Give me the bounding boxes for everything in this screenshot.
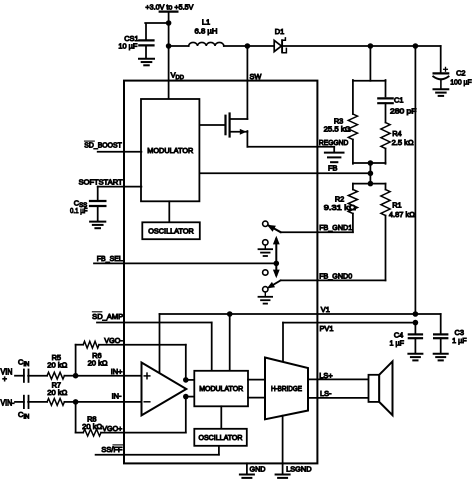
block boost MODULATOR	[141, 99, 199, 201]
speaker	[369, 361, 393, 415]
capacitor C1	[378, 98, 392, 103]
svg-text:CIN: CIN	[18, 358, 29, 369]
svg-text:C1: C1	[394, 96, 403, 105]
transistor boost NMOS channel bar	[229, 114, 231, 137]
ground C2	[434, 89, 449, 96]
svg-text:VGO+: VGO+	[102, 424, 122, 433]
wire CIN to R7	[28, 401, 47, 403]
svg-text:+: +	[2, 374, 7, 383]
label R4	[392, 129, 401, 138]
resistor R4	[381, 123, 390, 149]
node PV1 rail junction	[413, 320, 419, 326]
label R7	[52, 381, 61, 390]
svg-text:OSCILLATOR: OSCILLATOR	[199, 433, 243, 442]
wire LS+	[308, 378, 369, 380]
svg-text:VGO-: VGO-	[104, 336, 123, 345]
wire lower divider top bar	[353, 183, 386, 185]
wire VGO-	[99, 344, 186, 346]
svg-text:9.31 kΩ: 9.31 kΩ	[324, 203, 357, 212]
wire R1 top lead	[385, 184, 387, 190]
svg-text:20 kΩ: 20 kΩ	[82, 422, 102, 431]
wire R4 bottom lead	[385, 149, 387, 164]
label CIN top	[18, 358, 29, 369]
label C1	[394, 96, 403, 105]
wire modulator to H-bridge	[248, 380, 265, 398]
svg-text:MODULATOR: MODULATOR	[147, 146, 193, 155]
wire FB_GND1	[281, 231, 353, 233]
svg-text:R1: R1	[392, 200, 401, 209]
node IN+ junction	[73, 373, 79, 379]
svg-text:L1: L1	[202, 18, 210, 27]
svg-text:2.5 kΩ: 2.5 kΩ	[392, 138, 414, 147]
wire SS/FF	[96, 446, 219, 455]
svg-text:GND: GND	[250, 465, 266, 474]
svg-text:FB: FB	[328, 164, 338, 173]
node op-amp out+ junction	[183, 377, 189, 383]
capacitor CS1	[139, 40, 153, 45]
wire IN+	[76, 375, 142, 377]
wire right rail vertical	[414, 46, 416, 314]
wire R2 bottom lead	[352, 214, 354, 233]
node V1 modulator branch	[227, 311, 233, 371]
wire LSGND	[282, 416, 284, 474]
switch blade FB_GND1	[267, 225, 281, 233]
block boost OSCILLATOR	[142, 222, 200, 239]
svg-text:V1: V1	[321, 305, 330, 314]
svg-text:SS/FF: SS/FF	[101, 445, 122, 454]
label VIN- input	[1, 398, 15, 407]
wire R3 bottom lead	[352, 140, 354, 164]
wire L1 to SW node	[224, 45, 248, 47]
label LS+ pin	[319, 371, 332, 380]
capacitor CSS	[90, 201, 105, 206]
svg-text:280 pF: 280 pF	[390, 107, 417, 116]
capacitor C3	[434, 334, 447, 338]
ground C3	[434, 354, 448, 361]
wire CSS branch	[97, 187, 99, 201]
ground CS1	[139, 59, 154, 66]
node op-amp out- junction	[183, 394, 189, 400]
wire switch gnd1 stub	[264, 245, 266, 249]
wire C3 to ground	[440, 338, 442, 353]
wire SW vertical	[246, 46, 248, 119]
capacitor C2	[433, 73, 448, 89]
label REGGND pin	[319, 138, 349, 147]
wire R5 to IN+ node	[64, 375, 75, 377]
label IN- pin	[112, 391, 122, 400]
diode D1 (schottky)	[274, 38, 286, 53]
label R8	[87, 415, 96, 424]
node V1 rail junction	[413, 311, 419, 317]
inductor L1	[189, 42, 224, 46]
block amp MODULATOR	[194, 371, 248, 407]
svg-text:LS-: LS-	[320, 389, 332, 398]
label CS1	[124, 34, 138, 43]
svg-text:VDD: VDD	[171, 71, 184, 82]
wire divider feed	[369, 46, 371, 81]
capacitor CIN top	[24, 370, 29, 382]
label R8 value	[82, 422, 102, 431]
switch contact circle FB_GND0 gnd	[263, 287, 268, 292]
label R6	[92, 351, 101, 360]
node divider bottom junction	[368, 160, 374, 166]
node supply-L1 junction	[166, 43, 172, 49]
wire switch gnd0 stub	[264, 292, 266, 296]
label VDD pin	[171, 71, 184, 82]
block amp OSCILLATOR	[194, 429, 247, 446]
wire SW to D1	[247, 45, 274, 47]
label FB_GND0 pin	[319, 272, 352, 281]
wire LS-	[308, 397, 369, 399]
switch selector arrow	[273, 236, 280, 278]
capacitor C4	[409, 334, 422, 338]
label SS/FF pin	[101, 445, 122, 454]
wire FB	[199, 172, 370, 174]
wire R3 top lead	[352, 80, 354, 114]
svg-text:R4: R4	[392, 129, 401, 138]
wire divider top bar	[353, 80, 386, 82]
ground C4	[408, 354, 422, 361]
wire C4 branch	[414, 323, 416, 334]
wire modulator to oscillator	[168, 201, 170, 222]
svg-text:25.5 kΩ: 25.5 kΩ	[324, 125, 351, 134]
label R1 value	[389, 210, 415, 219]
label R6 value	[88, 359, 108, 368]
wire C1 to R4	[385, 103, 387, 122]
wire D1 to output rail	[282, 45, 441, 47]
label C2 value	[450, 77, 472, 86]
wire source with arrow	[230, 129, 248, 135]
svg-text:C2: C2	[456, 68, 465, 77]
node divider feed junction	[368, 43, 374, 49]
label C2	[456, 68, 465, 77]
label C3	[455, 328, 464, 337]
wire C1 top lead	[385, 80, 387, 96]
wire REGGND stub	[333, 147, 335, 153]
wire gate	[199, 124, 225, 126]
wire VGO+	[101, 432, 186, 434]
svg-text:20 kΩ: 20 kΩ	[88, 359, 108, 368]
node FB_SEL junction	[274, 261, 280, 267]
resistor R8	[83, 429, 101, 436]
label SD_AMP pin	[92, 312, 123, 321]
svg-text:SOFTSTART: SOFTSTART	[79, 177, 123, 186]
wire R8 branch	[76, 402, 84, 433]
svg-text:20 kΩ: 20 kΩ	[47, 388, 67, 397]
svg-text:100 µF: 100 µF	[450, 77, 472, 86]
svg-text:CIN: CIN	[18, 410, 29, 421]
node FB junction	[368, 171, 374, 177]
label LSGND pin	[286, 465, 312, 474]
capacitor CIN bottom	[24, 396, 29, 408]
svg-text:10 µF: 10 µF	[118, 42, 138, 51]
wire SOFTSTART	[98, 186, 142, 188]
wire PV1	[283, 323, 415, 362]
wire C3 branch	[415, 314, 440, 334]
node IN- junction	[73, 399, 79, 405]
svg-text:SD_BOOST: SD_BOOST	[84, 140, 122, 149]
svg-text:FB_GND1: FB_GND1	[319, 223, 352, 232]
wire FB_SEL	[94, 262, 276, 264]
switch contact circle FB_GND1 open	[263, 221, 268, 226]
wire C2 branch	[440, 46, 442, 72]
label SOFTSTART pin	[79, 177, 123, 186]
node SW junction	[245, 43, 251, 49]
wire VIN- to CIN	[15, 401, 24, 403]
svg-text:D1: D1	[275, 27, 284, 36]
switch contact circle FB_GND0 open	[263, 270, 268, 275]
svg-text:IN-: IN-	[112, 391, 122, 400]
label R5	[52, 353, 61, 362]
wire VDD to L1	[169, 45, 189, 47]
label C1 value	[390, 107, 417, 116]
supply rail bar	[160, 11, 178, 13]
label R3 value	[324, 125, 351, 134]
svg-text:6.8 µH: 6.8 µH	[195, 26, 218, 35]
svg-text:LSGND: LSGND	[286, 465, 312, 474]
wire VGO- to output node	[185, 345, 187, 380]
label GND pin	[250, 465, 266, 474]
svg-text:OSCILLATOR: OSCILLATOR	[148, 227, 194, 236]
label L1	[202, 18, 210, 27]
svg-text:SD_AMP: SD_AMP	[92, 312, 123, 321]
label R3	[334, 117, 343, 126]
wire CSS to ground	[97, 206, 99, 221]
label SD_BOOST pin	[84, 140, 122, 149]
resistor R5	[47, 372, 64, 379]
svg-text:REGGND: REGGND	[319, 138, 349, 147]
label L1 value	[195, 26, 218, 35]
wire CS1 branch	[145, 23, 168, 41]
wire SD_BOOST	[98, 151, 142, 153]
resistor R1	[381, 190, 390, 216]
label R2 value	[324, 203, 357, 212]
wire R7 to IN- node	[64, 401, 75, 403]
supply label +3.0V to +5.5V	[145, 2, 193, 11]
switch contact circle FB_GND1 gnd	[263, 240, 268, 245]
wire R2 top lead	[352, 184, 354, 190]
wire MOSFET source to REGGND	[247, 146, 334, 148]
svg-text:PV1: PV1	[320, 324, 334, 333]
ground LSGND	[276, 475, 290, 480]
svg-text:IN+: IN+	[111, 367, 123, 376]
op-amp U2	[142, 363, 187, 416]
wire R1 bottom lead	[385, 216, 387, 281]
ground GND	[240, 475, 254, 480]
svg-text:MODULATOR: MODULATOR	[199, 384, 243, 393]
wire FB_GND0	[281, 279, 386, 281]
wire R6 branch	[76, 345, 84, 376]
wire amp modulator to oscillator	[220, 406, 222, 429]
wire FB node vertical	[369, 163, 371, 184]
label CIN bottom	[18, 410, 29, 421]
label VGO- pin	[104, 336, 123, 345]
label PV1 pin	[320, 324, 334, 333]
svg-text:VIN-: VIN-	[1, 398, 15, 407]
capacitor C2 plus sign	[444, 67, 448, 71]
ground CSS	[90, 222, 105, 229]
wire divider bottom bar	[353, 162, 386, 164]
block H-BRIDGE	[265, 358, 308, 420]
resistor R2	[348, 190, 357, 214]
wire IN-	[76, 401, 142, 403]
wire SD_AMP	[97, 323, 212, 371]
label CSS value	[70, 206, 88, 215]
resistor R7	[47, 399, 64, 406]
resistor R3	[348, 114, 357, 140]
svg-text:FB_SEL: FB_SEL	[97, 254, 123, 263]
label R4 value	[392, 138, 414, 147]
IC chip outline U1	[124, 81, 317, 464]
label R1	[392, 200, 401, 209]
svg-text:1 µF: 1 µF	[390, 338, 405, 347]
label C4 value	[390, 338, 405, 347]
label VGO+ pin	[102, 424, 122, 433]
label IN+ pin	[111, 367, 123, 376]
wire VGO+ to output node	[185, 397, 187, 433]
node lower divider top junction	[368, 181, 374, 187]
wire C4 to ground	[414, 338, 416, 353]
svg-text:4.87 kΩ: 4.87 kΩ	[389, 210, 415, 219]
wire CIN to R5	[28, 375, 47, 377]
ground switch FB_GND0	[259, 297, 273, 304]
label FB_GND1 pin	[319, 223, 352, 232]
wire CS1 to ground	[145, 45, 147, 58]
node right rail junction	[413, 43, 419, 49]
wire VDD vertical	[168, 12, 170, 99]
switch blade FB_GND0	[267, 280, 281, 288]
wire drain	[230, 118, 248, 120]
label V1 pin	[321, 305, 330, 314]
wire VIN+ to CIN	[15, 375, 24, 377]
svg-text:H-BRIDGE: H-BRIDGE	[271, 384, 302, 393]
ground switch FB_GND1	[259, 249, 273, 256]
label VIN+ input	[1, 367, 13, 383]
resistor R6	[83, 341, 99, 348]
svg-text:0.1 µF: 0.1 µF	[70, 206, 88, 215]
label R2	[335, 194, 344, 203]
label FB_SEL pin	[97, 254, 123, 263]
transistor boost NMOS gate bar	[224, 116, 226, 135]
node supply-CS1 junction	[166, 20, 172, 26]
label C4	[394, 331, 403, 340]
wire op-amp outputs to modulator	[186, 380, 195, 397]
svg-text:LS+: LS+	[319, 371, 332, 380]
svg-text:+3.0V to +5.5V: +3.0V to +5.5V	[145, 2, 193, 11]
label C3 value	[452, 336, 467, 345]
wire GND stub	[246, 463, 248, 474]
label CSS	[74, 198, 87, 209]
svg-text:FB_GND0: FB_GND0	[319, 272, 352, 281]
wire V1 internal	[160, 314, 416, 373]
label FB pin	[328, 164, 338, 173]
label R5 value	[47, 361, 67, 370]
wire source down	[246, 131, 248, 147]
label CS1 value	[118, 42, 138, 51]
label R7 value	[47, 388, 67, 397]
label SW pin	[250, 72, 262, 81]
ground REGGND	[325, 153, 344, 163]
label LS- pin	[320, 389, 332, 398]
svg-text:1 µF: 1 µF	[452, 336, 467, 345]
svg-text:20 kΩ: 20 kΩ	[47, 361, 67, 370]
label D1	[275, 27, 284, 36]
